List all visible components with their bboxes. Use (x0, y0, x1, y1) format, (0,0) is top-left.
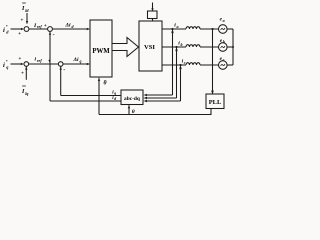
node I_ref label (33, 23, 42, 29)
wire i_q feedback up into S4 (60, 67, 62, 96)
node PLL tap junction (211, 28, 213, 30)
svg-text:b: b (223, 39, 225, 44)
svg-text:Δi: Δi (65, 23, 72, 29)
wire S2 to PWM with delta-id (52, 28, 87, 30)
svg-text:PWM: PWM (92, 48, 110, 55)
node i_q* input label (3, 59, 9, 70)
node i_d* input label (3, 24, 9, 35)
wire S4 to PWM with delta-iq (63, 63, 87, 65)
summer S1 (d-axis first) (24, 27, 29, 32)
source ea (219, 25, 228, 34)
svg-text:*: * (6, 59, 8, 64)
node i_a label (174, 22, 178, 28)
svg-text:+: + (18, 56, 21, 62)
inductor Lb (186, 45, 200, 47)
wire inductor Lb to source eb (200, 46, 219, 48)
node ia tap junction (171, 28, 173, 30)
wire I_ld down into summer S1 (26, 13, 28, 24)
wire inductor Lc to source ec (200, 64, 219, 66)
svg-text:d: d (114, 97, 116, 101)
node i_q label (112, 90, 116, 95)
wire ib into abc-dq (147, 97, 177, 99)
node ib tap junction (175, 46, 177, 48)
node delta i_d label (65, 23, 75, 29)
wire i_q* to summer S3 (11, 63, 22, 65)
svg-text:+: + (44, 23, 47, 29)
svg-text:a: a (177, 24, 179, 29)
node bus junction b (232, 46, 234, 48)
svg-text:i: i (3, 27, 5, 34)
wire i_d* to summer S1 (11, 28, 22, 30)
wire S3 to S4 (29, 63, 59, 65)
source ec (219, 61, 228, 70)
node i_d label (112, 96, 116, 101)
wire theta branch up into abc-dq (128, 105, 130, 114)
summer S3 (q-axis first) (24, 62, 29, 67)
wire I_lq up into summer S3 (25, 67, 27, 80)
PWM block (90, 20, 112, 77)
svg-text:c: c (184, 60, 186, 65)
node i_ref label (35, 56, 43, 62)
svg-text:a: a (223, 18, 225, 23)
DC source on top of VSI (152, 3, 154, 11)
svg-text:PLL: PLL (209, 99, 221, 106)
wire i_d output of abc-dq to S2 (50, 100, 121, 102)
svg-text:*: * (6, 24, 8, 29)
svg-text:ref: ref (37, 58, 42, 63)
abc-dq block (121, 90, 143, 105)
wire PLL output theta down and left (99, 109, 211, 115)
svg-text:ref: ref (37, 24, 42, 29)
wire inductor La to source ea (200, 28, 219, 30)
wire ic into abc-dq (147, 100, 181, 102)
source eb (219, 43, 228, 52)
wire ic measurement down (180, 65, 182, 101)
wire eb to bus (227, 46, 233, 48)
wire PLL tap down (212, 29, 214, 94)
wire ec to bus (227, 64, 233, 66)
svg-text:-: - (53, 33, 55, 39)
svg-text:b: b (181, 42, 183, 47)
svg-text:i: i (3, 62, 5, 69)
svg-text:VSI: VSI (144, 44, 155, 51)
svg-text:q: q (80, 58, 82, 63)
svg-text:q: q (114, 92, 116, 96)
wire theta up into PWM (98, 78, 100, 115)
svg-text:c: c (223, 57, 225, 62)
svg-text:θ: θ (132, 109, 135, 115)
VSI block (139, 21, 162, 71)
inductor Lc (186, 63, 200, 65)
node i_b label (178, 40, 182, 46)
summer S2 (d-axis second) (48, 27, 53, 32)
node i_c label (182, 58, 186, 64)
wire ea to bus (227, 28, 233, 30)
wire phase a from VSI (162, 28, 186, 30)
wire S1 to S2 (29, 28, 48, 30)
wire ib measurement down (176, 47, 178, 98)
summer S4 (q-axis second) (58, 62, 63, 67)
wire neutral bus (232, 29, 234, 65)
wire phase b from VSI (162, 46, 186, 48)
node ic tap junction (179, 64, 181, 66)
node I_ld average label (21, 6, 29, 13)
svg-text:-: - (63, 68, 65, 74)
PLL block (206, 94, 224, 109)
svg-text:+: + (48, 58, 51, 64)
svg-text:+: + (21, 70, 24, 76)
block arrow PWM to VSI (113, 38, 139, 57)
svg-text:θ: θ (104, 80, 107, 86)
wire phase c from VSI (162, 64, 186, 66)
svg-text:Δi: Δi (73, 57, 80, 63)
svg-text:abc-dq: abc-dq (124, 96, 140, 102)
node I_lq average label (21, 89, 28, 96)
svg-text:+: + (20, 17, 23, 23)
node delta i_q label (73, 57, 82, 63)
svg-text:+: + (18, 31, 21, 37)
svg-text:lq: lq (25, 91, 28, 96)
wire ia into abc-dq (147, 94, 173, 96)
wire ia measurement down (172, 29, 174, 95)
inductor La (186, 27, 200, 29)
wire i_d feedback up into S2 (49, 32, 51, 101)
wire i_q output of abc-dq to S4 (61, 95, 121, 97)
